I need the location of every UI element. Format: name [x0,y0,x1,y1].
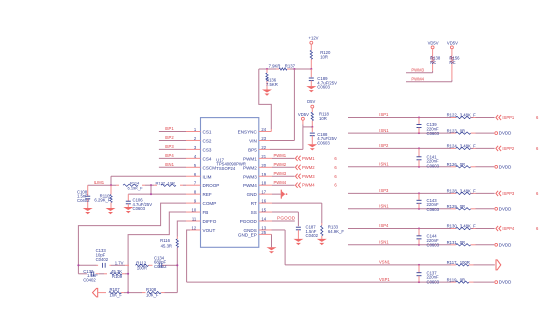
svg-text:10R: 10R [168,180,175,185]
svg-text:DVDD: DVDD [499,206,511,211]
svg-text:C0402: C0402 [96,257,109,262]
svg-text:PWM3: PWM3 [302,174,315,179]
svg-text:ISN1: ISN1 [379,128,389,133]
svg-text:ISP2: ISP2 [165,135,175,140]
svg-text:R119: R119 [447,277,457,282]
svg-text:R130: R130 [447,224,458,229]
svg-text:C0603: C0603 [427,207,440,212]
svg-text:PWM3: PWM3 [243,174,257,179]
svg-text:TSSOP24: TSSOP24 [216,166,236,171]
svg-text:ISP4: ISP4 [379,223,389,228]
svg-text:64.9K_F: 64.9K_F [328,229,344,234]
svg-text:R131: R131 [447,240,458,245]
svg-text:ISN1: ISN1 [379,162,389,167]
svg-text:CSCM: CSCM [203,165,217,170]
svg-text:ISP1: ISP1 [165,126,175,131]
svg-text:ISP1: ISP1 [379,112,389,117]
svg-text:C0603: C0603 [133,206,146,211]
svg-text:CS2: CS2 [203,138,212,143]
svg-text:ENSYNC: ENSYNC [238,130,258,135]
svg-text:R137: R137 [285,64,296,69]
svg-text:R108: R108 [146,287,157,292]
svg-text:COMP: COMP [203,201,217,206]
svg-text:PGOOD: PGOOD [277,216,296,221]
svg-text:10K_F: 10K_F [146,292,159,297]
svg-text:RT: RT [251,201,257,206]
svg-text:ISP3: ISP3 [165,144,175,149]
svg-text:VOUT: VOUT [203,228,216,233]
svg-text:PGOOD: PGOOD [240,219,258,224]
svg-text:SS: SS [251,210,257,215]
svg-text:PWM3: PWM3 [411,68,424,73]
svg-text:0R: 0R [460,162,465,167]
svg-text:PWM4: PWM4 [274,180,287,185]
svg-text:C0603: C0603 [427,131,440,136]
svg-text:10K_F: 10K_F [110,292,123,297]
svg-text:NC: NC [449,60,455,65]
svg-text:PWM4: PWM4 [243,183,257,188]
svg-text:100R: 100R [137,266,147,271]
svg-text:6.29K_F: 6.29K_F [94,198,110,203]
svg-text:ISPP4: ISPP4 [502,226,515,231]
svg-text:CS4: CS4 [203,156,212,161]
svg-text:CS1: CS1 [203,130,212,135]
svg-text:ISPP3: ISPP3 [502,191,515,196]
svg-text:PWM1: PWM1 [243,156,257,161]
svg-text:1.7V: 1.7V [115,261,124,266]
svg-text:ISP3: ISP3 [379,188,389,193]
svg-text:DVDD: DVDD [499,131,511,136]
svg-text:0R: 0R [460,277,465,282]
svg-text:VD5V: VD5V [428,41,439,46]
svg-text:3.48K_F: 3.48K_F [460,189,476,194]
svg-text:0R: 0R [460,240,465,245]
svg-text:REF: REF [203,192,212,197]
svg-text:7.9KR: 7.9KR [269,64,281,69]
svg-text:ISN1: ISN1 [165,162,175,167]
svg-text:C0402: C0402 [77,198,90,203]
svg-text:PWM4: PWM4 [302,183,315,188]
svg-text:FB: FB [203,210,209,215]
svg-text:R132: R132 [156,180,166,185]
svg-text:7.5KR: 7.5KR [266,82,278,87]
svg-text:ISP4: ISP4 [165,153,175,158]
svg-text:0R: 0R [460,204,465,209]
svg-text:C0603: C0603 [317,141,330,146]
svg-text:DVDD: DVDD [499,164,511,169]
svg-text:ILIM: ILIM [203,174,212,179]
svg-text:VD5V: VD5V [447,41,458,46]
svg-text:0R: 0R [460,128,465,133]
svg-text:R128: R128 [447,189,458,194]
svg-text:C0603: C0603 [427,242,440,247]
svg-text:DROOP: DROOP [203,183,220,188]
svg-text:D5V: D5V [307,99,315,104]
svg-text:DVDD: DVDD [499,280,511,285]
svg-text:ISPP1: ISPP1 [502,115,515,120]
svg-text:3.48K_F: 3.48K_F [460,113,476,118]
svg-text:C0603: C0603 [317,85,330,90]
svg-text:VSN1: VSN1 [379,260,391,265]
svg-text:C0402: C0402 [306,233,319,238]
svg-text:R124: R124 [447,144,458,149]
svg-text:R107: R107 [110,287,121,292]
svg-text:3.48K_F: 3.48K_F [460,224,476,229]
svg-text:R109: R109 [112,274,123,279]
svg-text:R117: R117 [447,260,457,265]
svg-text:C0603: C0603 [427,279,440,284]
svg-text:R116: R116 [160,238,170,243]
svg-text:PWM2: PWM2 [302,165,315,170]
svg-text:ILIM1: ILIM1 [94,180,105,185]
svg-text:PWM3: PWM3 [274,171,287,176]
svg-text:VD5V: VD5V [298,112,309,117]
svg-text:CS3: CS3 [203,147,212,152]
svg-text:GND: GND [247,192,258,197]
svg-text:R129: R129 [447,204,458,209]
svg-text:ISPP2: ISPP2 [502,146,515,151]
svg-text:ISN1: ISN1 [379,240,389,245]
svg-text:PWM2: PWM2 [274,162,287,167]
svg-text:VIN: VIN [249,138,257,143]
svg-text:PWM4: PWM4 [411,77,424,82]
svg-text:R122: R122 [447,113,458,118]
svg-text:45.3R: 45.3R [161,243,172,248]
svg-text:100R: 100R [460,260,470,265]
svg-text:R126: R126 [447,162,458,167]
svg-text:NC: NC [430,60,436,65]
svg-text:PWM1: PWM1 [274,153,287,158]
svg-text:10R: 10R [320,54,328,59]
svg-text:VSP1: VSP1 [379,277,390,282]
svg-text:3.48K_F: 3.48K_F [460,144,476,149]
svg-text:ISP2: ISP2 [379,143,389,148]
svg-text:GND_EP: GND_EP [238,233,257,238]
svg-text:DVDD: DVDD [499,242,511,247]
svg-text:BP5: BP5 [248,147,257,152]
svg-text:C0402: C0402 [83,278,96,283]
svg-text:ISN1: ISN1 [379,204,389,209]
svg-text:C0603: C0603 [427,163,440,168]
svg-text:+12V: +12V [309,36,319,41]
svg-text:C0402: C0402 [154,264,167,269]
svg-text:R123: R123 [447,128,458,133]
svg-text:6.19K_F: 6.19K_F [128,185,144,190]
svg-text:10R: 10R [319,116,327,121]
svg-text:DIFFO: DIFFO [203,219,217,224]
svg-text:PWM1: PWM1 [302,156,315,161]
